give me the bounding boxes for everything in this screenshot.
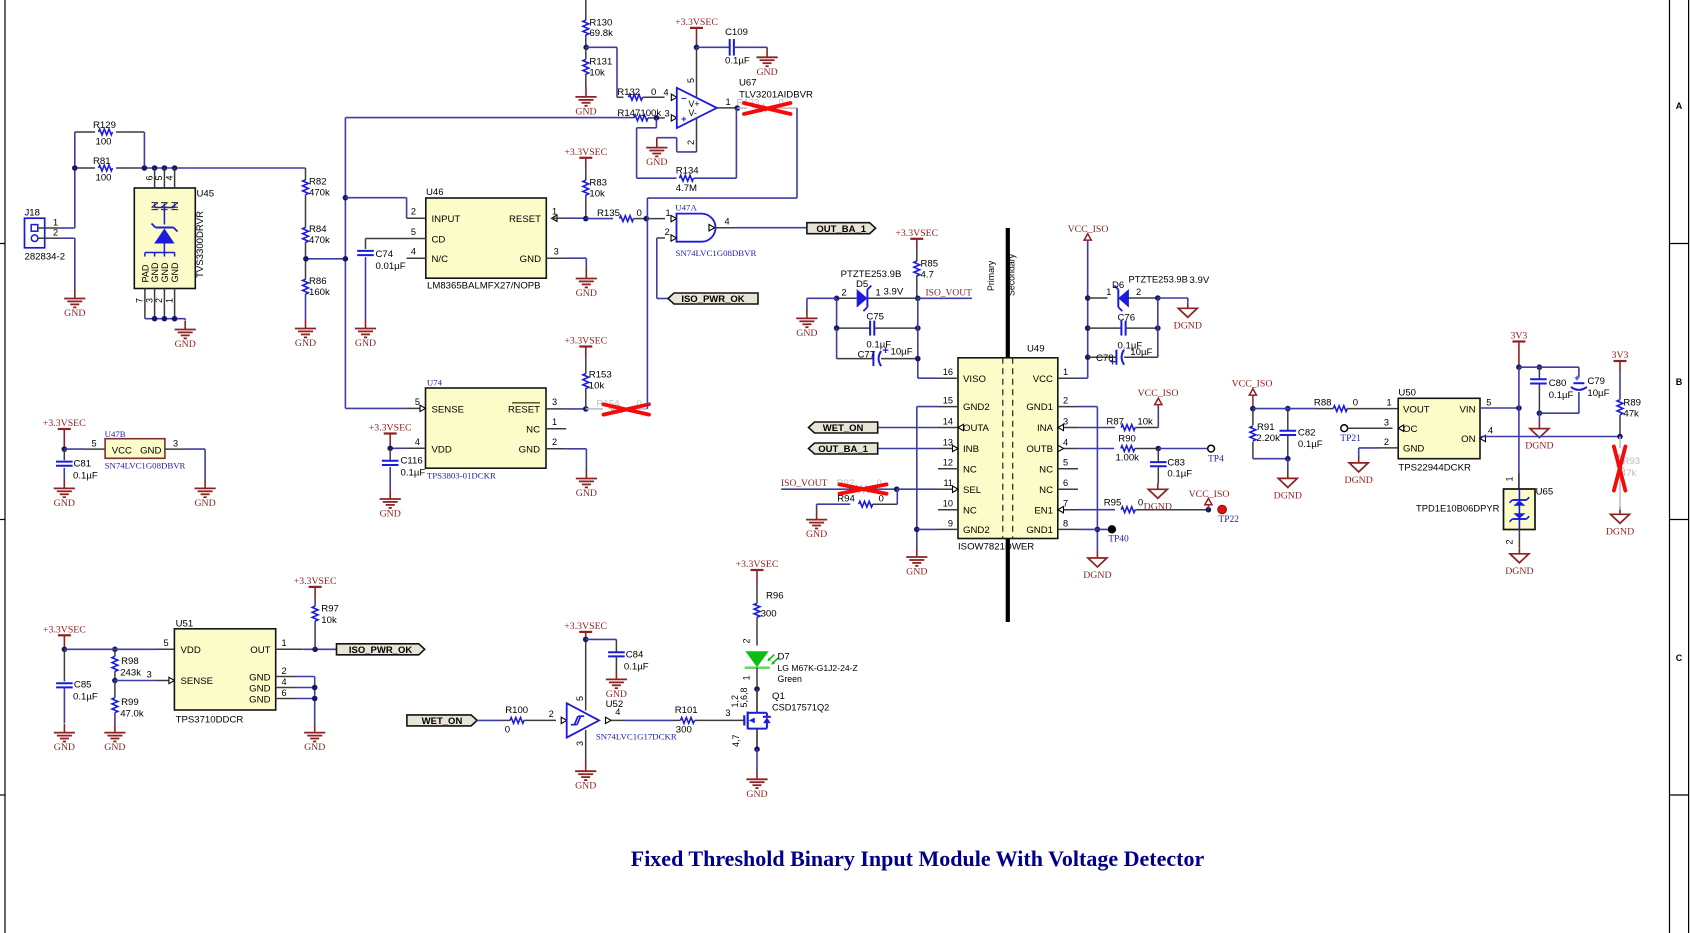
svg-text:CSD17571Q2: CSD17571Q2 [772,702,829,712]
svg-text:6: 6 [282,688,287,698]
capacitor C80 0.1uF [1530,367,1573,413]
svg-text:U46: U46 [426,187,444,198]
svg-text:NC: NC [1039,464,1053,475]
svg-text:RESET: RESET [509,214,541,225]
svg-text:U74: U74 [427,378,443,388]
svg-text:13: 13 [943,438,953,448]
svg-text:GND: GND [170,262,180,283]
wire TP21 to OC pin [1348,427,1393,429]
digital ground DGND at C80 [1525,413,1553,451]
svg-text:R83: R83 [589,178,607,189]
svg-text:TP4: TP4 [1208,454,1224,464]
wire sense tap to U46 INPUT [345,198,425,219]
power flag VCC_ISO at R91 [1232,379,1273,409]
junction dots C75 [834,325,921,331]
resistor R87 10k pullup INA [1078,416,1158,430]
svg-text:Q1: Q1 [772,691,785,702]
net label ISO_PWR_OK output tag [337,644,425,656]
svg-text:0: 0 [1138,498,1143,509]
resistor R132 0 [617,87,677,101]
svg-text:0: 0 [879,494,884,505]
svg-text:PTZTE253.9B: PTZTE253.9B [841,269,902,280]
zener diode D5 PTZTE253.9B 3.9V [837,269,918,311]
test point TP22 [1218,505,1240,525]
svg-text:1: 1 [164,298,174,303]
resistor R83 10k [583,169,607,219]
svg-text:4.7M: 4.7M [676,183,697,194]
svg-text:0.1µF: 0.1µF [1167,469,1192,480]
power +3.3VSEC at R153 [564,336,607,359]
svg-text:0.1µF: 0.1µF [1298,439,1323,450]
svg-text:2: 2 [1136,287,1141,297]
svg-text:0: 0 [1353,398,1358,409]
capacitor C75 0.1uF [837,298,918,350]
svg-text:4: 4 [415,437,420,447]
svg-text:1: 1 [282,638,287,648]
ground GND at U45 [175,321,196,351]
junction dot U52 power [583,637,589,643]
svg-text:R88: R88 [1314,398,1332,409]
TVS diode U45 TVS3300DRVR [134,168,214,319]
svg-text:2: 2 [549,709,554,719]
ground GND at U74 [576,470,597,500]
svg-text:0: 0 [651,87,656,98]
svg-text:100: 100 [96,173,112,184]
power flag VCC_ISO at R87 [1138,388,1179,404]
buffer U52 SN74LVC1G17DCKR [567,699,677,742]
svg-text:0.01µF: 0.01µF [376,261,406,272]
digital ground DGND at C83 [1144,483,1172,512]
svg-text:1: 1 [53,217,58,227]
svg-text:4: 4 [411,247,416,257]
svg-text:47k: 47k [1623,408,1639,419]
svg-text:NC: NC [526,425,540,436]
svg-text:1: 1 [552,417,557,427]
svg-text:R153: R153 [589,370,612,381]
resistor R90 1.00k at OUTB [1078,434,1158,464]
svg-text:8: 8 [1063,518,1068,528]
svg-text:TP22: TP22 [1218,515,1239,525]
svg-text:D5: D5 [856,279,868,290]
svg-text:R81: R81 [93,156,111,167]
pin stub U74 NC pin1 [546,428,566,430]
wire R93 to DGND [1619,508,1621,509]
pin stub U46 N/C pin 4 [407,257,426,259]
svg-text:4.7: 4.7 [921,270,934,281]
svg-text:GND: GND [140,445,161,456]
svg-text:OUT: OUT [250,645,270,656]
svg-text:U51: U51 [176,618,194,629]
ground GND at U47B pin3 [194,479,215,509]
wire to U47B VCC pin 5 [64,439,105,450]
power 3V3 at C80 [1510,331,1527,368]
svg-text:9: 9 [948,518,953,528]
power +3.3VSEC at R97 [294,576,337,598]
svg-text:3: 3 [147,669,152,679]
svg-text:0.1µF: 0.1µF [401,468,426,479]
junction dot op-amp output [735,105,741,111]
junction dot SEL net [894,486,938,492]
svg-text:SENSE: SENSE [432,404,465,415]
wire U47A output to OUT_BA_1 [735,227,807,229]
resistor R85 4.7 [914,248,938,298]
wire supply to U51 VDD [64,638,174,649]
svg-text:10k: 10k [589,67,605,78]
svg-text:2: 2 [742,638,752,643]
net label OUT_BA_1 output tag [807,223,876,235]
svg-text:+3.3VSEC: +3.3VSEC [564,621,607,632]
junction dot U47B VCC [62,446,68,452]
svg-text:282834-2: 282834-2 [25,252,66,263]
svg-text:1: 1 [1106,287,1111,297]
svg-text:R98: R98 [121,656,139,667]
svg-text:0.1µF: 0.1µF [624,661,649,672]
junction dot R98/R99/SENSE [112,678,118,684]
svg-text:RESET: RESET [508,404,540,415]
wire U51 GND pins chain [276,677,318,724]
svg-text:GND: GND [295,338,316,349]
svg-text:4: 4 [615,707,620,717]
capacitor C116 0.1uF [382,448,425,490]
svg-text:C82: C82 [1298,428,1316,439]
svg-text:3.9V: 3.9V [1190,275,1210,286]
svg-text:+: + [681,114,687,125]
power 3V3 at R89 [1612,350,1629,372]
svg-text:OUTB: OUTB [1026,444,1053,455]
svg-text:10µF: 10µF [1587,388,1609,399]
svg-text:VDD: VDD [432,444,452,455]
svg-text:TPD1E10B06DPYR: TPD1E10B06DPYR [1416,503,1500,514]
svg-text:0: 0 [637,208,642,219]
resistor R129 100 [75,120,145,148]
power flag VCC_ISO above D6 [1068,224,1109,298]
svg-text:5: 5 [1486,397,1491,407]
wire sense rail vertical [343,118,349,409]
svg-text:GND: GND [806,529,827,540]
svg-text:DGND: DGND [1144,501,1172,512]
svg-text:GND: GND [756,67,777,78]
svg-text:+3.3VSEC: +3.3VSEC [895,228,938,239]
resistor R130 69.8k [583,0,613,47]
svg-text:4: 4 [1063,438,1068,448]
svg-text:160k: 160k [309,287,330,298]
resistor R100 0 [502,705,567,735]
wire U51 OUT to R97 junction and tag [276,648,337,650]
svg-text:R135: R135 [597,208,620,219]
svg-text:6: 6 [144,175,154,180]
svg-text:+3.3VSEC: +3.3VSEC [564,336,607,347]
svg-text:5: 5 [163,638,168,648]
svg-text:CD: CD [432,234,446,245]
svg-text:C78: C78 [1096,353,1114,364]
svg-text:10k: 10k [1137,416,1153,427]
wire R91/C82 bottom junction [1253,456,1291,473]
svg-text:U49: U49 [1027,343,1045,354]
U52 output pin 4 [606,707,674,724]
label Primary [986,260,996,291]
ground GND at C109 [756,47,777,78]
svg-text:4: 4 [282,677,287,687]
svg-text:3: 3 [665,108,670,118]
ground GND at D5 [796,308,817,339]
power +3.3VSEC at R85 [895,228,938,248]
svg-text:GND: GND [906,567,927,578]
digital ground DGND at U65 [1505,549,1533,577]
resistor R96 300 [754,583,784,646]
resistor R131 10k [583,47,612,87]
net label OUT_BA_1 tag at INB [809,443,939,455]
wire C76 right rail [1157,298,1159,357]
svg-text:+3.3VSEC: +3.3VSEC [369,423,412,434]
svg-text:47.0k: 47.0k [120,709,144,720]
svg-text:GND: GND [54,498,75,509]
resistor R95 0 at EN1 [1078,498,1208,513]
svg-text:DGND: DGND [1345,475,1373,486]
resistor R91 2.20k [1250,409,1280,459]
svg-text:ISO_VOUT: ISO_VOUT [781,479,828,489]
svg-text:LM8365BALMFX27/NOPB: LM8365BALMFX27/NOPB [427,280,541,291]
svg-text:C79: C79 [1587,376,1605,387]
svg-text:2: 2 [1505,539,1515,544]
capacitor C78 10uF polarized [1088,347,1158,369]
svg-text:12: 12 [943,458,953,468]
svg-text:0.1µF: 0.1µF [73,691,98,702]
svg-text:GND: GND [194,498,215,509]
resistor R88 0 [1314,398,1398,412]
svg-text:R94: R94 [837,494,855,505]
digital ground DGND at GND1 rail [1083,552,1111,581]
ground GND at C81 [54,479,75,509]
svg-text:R130: R130 [589,17,612,28]
svg-text:GND2: GND2 [963,402,990,413]
svg-text:Fixed Threshold Binary Input M: Fixed Threshold Binary Input Module With… [631,846,1205,871]
svg-text:GND: GND [646,157,667,168]
svg-text:+3.3VSEC: +3.3VSEC [294,576,337,587]
ground GND at R94 [806,510,827,540]
svg-text:69.8k: 69.8k [589,28,613,39]
svg-text:R85: R85 [921,259,939,270]
svg-text:2: 2 [282,666,287,676]
svg-text:GND: GND [150,262,160,283]
resistor R154 0 DNP crossed out [586,399,649,415]
net label WET_ON input tag [407,715,477,727]
voltage detector U46 LM8365BALMFX27/NOPB [411,187,559,291]
wire U47B GND pin 3 to ground [165,439,205,480]
svg-text:10k: 10k [589,381,605,392]
junction dots on input net [72,165,177,171]
junction dot R83/R135/RESET [583,216,589,222]
ground GND at R131 [575,87,596,118]
svg-text:2: 2 [665,227,670,237]
wire comparator output loop to U47A [647,108,797,198]
svg-text:3: 3 [552,397,557,407]
svg-text:TPS22944DCKR: TPS22944DCKR [1398,463,1471,474]
svg-text:5: 5 [415,397,420,407]
wire WET_ON to R100 [477,719,502,721]
wire C80/C79 loop [1519,367,1579,413]
svg-text:15: 15 [943,396,953,406]
wire GND2 rail [914,407,938,548]
pin stub U46 RESET pin 1 with arrow [552,215,586,221]
LED D7 green LG M67K-G1J2-24-Z [742,638,858,689]
svg-text:7: 7 [135,298,145,303]
pin stub U74 RESET pin3 [546,408,586,410]
resistor R84 470k [303,221,330,259]
junction dot D7/Q1 drain [754,686,760,692]
svg-text:2.20k: 2.20k [1256,433,1280,444]
svg-text:GND: GND [606,689,627,700]
digital ground DGND at D6 [1174,302,1202,331]
junction dot R90/C83/TP4 [1156,446,1162,452]
ground GND at U51 [304,724,325,754]
svg-text:R101: R101 [675,705,698,716]
wire U45 bottom pins to GND [145,316,185,322]
wire U50 GND pin 2 to DGND [1359,448,1399,457]
svg-text:VCC: VCC [112,445,132,456]
svg-text:GND: GND [64,308,85,319]
svg-text:3V3: 3V3 [1612,350,1629,361]
svg-text:16: 16 [943,367,953,377]
svg-text:INA: INA [1037,423,1054,434]
capacitor C85 0.1uF [56,649,98,723]
svg-text:U67: U67 [739,78,757,89]
svg-text:ISO_PWR_OK: ISO_PWR_OK [349,645,412,656]
ground GND at op-amp pin2 [646,138,667,169]
svg-text:R99: R99 [121,697,139,708]
digital ground DGND at R93 [1606,509,1634,537]
svg-text:WET_ON: WET_ON [422,716,463,727]
svg-text:R95: R95 [1104,498,1122,509]
feedback wire from V- junction [637,118,657,178]
resistor R135 0 [586,208,647,221]
AND gate U47A SN74LVC1G08DBVR [675,203,756,258]
svg-text:U50: U50 [1398,388,1416,399]
svg-text:GND1: GND1 [1026,402,1053,413]
svg-text:470k: 470k [309,235,330,246]
wire R87 to VCC_ISO [1157,404,1159,427]
svg-text:TPS3710DDCR: TPS3710DDCR [176,714,244,725]
svg-text:10µF: 10µF [1130,347,1152,358]
svg-text:U47B: U47B [105,429,126,439]
ground GND at C116 [380,490,401,520]
test point TP40 [1108,525,1129,544]
junction dot U74 RESET/R153 [583,406,589,412]
svg-text:VOUT: VOUT [1403,404,1430,415]
svg-text:300: 300 [676,724,692,735]
svg-text:ISO_PWR_OK: ISO_PWR_OK [681,294,744,305]
svg-text:4: 4 [164,175,174,180]
svg-text:2: 2 [842,287,847,297]
svg-text:VIN: VIN [1460,404,1476,415]
svg-text:GND: GND [160,262,170,283]
wire R84/R86 junction to sense rail [303,256,345,262]
svg-text:2: 2 [411,207,416,217]
svg-text:2: 2 [1063,396,1068,406]
resistor R133 0 DNP crossed out [737,98,798,114]
power +3.3VSEC at U47B [43,418,86,449]
svg-text:R147: R147 [617,108,640,119]
wire R130/R131 junction to R132 [586,47,617,97]
svg-text:C109: C109 [725,27,748,38]
capacitor C76 0.1uF [1088,312,1158,351]
svg-text:5,6,8: 5,6,8 [739,687,749,707]
svg-text:EN1: EN1 [1034,505,1053,516]
svg-text:4: 4 [725,217,730,227]
svg-text:GND: GND [520,254,541,265]
svg-text:5: 5 [1063,458,1068,468]
power +3.3VSEC at op-amp [675,17,718,47]
svg-text:14: 14 [943,417,953,427]
svg-text:U47A: U47A [675,203,697,213]
svg-text:10k: 10k [589,189,605,200]
junction dot R147/V- feedback [654,115,660,121]
svg-text:+3.3VSEC: +3.3VSEC [675,17,718,28]
ground GND at U49 GND2 [906,548,927,578]
load switch U50 TPS22944DCKR [1384,388,1493,474]
resistor R147 100k [617,108,676,121]
resistor R134 4.7M feedback [637,166,737,194]
svg-text:3: 3 [725,708,730,718]
svg-text:R89: R89 [1623,398,1641,409]
svg-text:100: 100 [96,137,112,148]
svg-text:0: 0 [505,724,510,735]
svg-text:WET_ON: WET_ON [823,423,864,434]
supervisor U74 TPS3803-01DCKR [415,378,557,481]
wire GND1 rail to DGND [1078,407,1100,552]
resistor R101 300 [673,705,744,735]
wire sense rail to R147 [345,117,631,119]
wire U52 pin 5 power [575,639,586,710]
svg-text:+3.3VSEC: +3.3VSEC [736,559,779,570]
svg-text:VISO: VISO [963,374,986,385]
svg-text:N/C: N/C [432,254,449,265]
junction dot D6 cathode-side [1155,295,1161,301]
junction dot R89/ON/R93 [1617,434,1623,440]
svg-text:VCC: VCC [1033,374,1053,385]
ground GND at C84 [606,670,627,700]
svg-text:ISOW7821DWER: ISOW7821DWER [958,541,1034,552]
svg-text:GND: GND [1403,444,1424,455]
capacitor C83 0.1uF [1150,449,1192,484]
svg-text:5: 5 [91,439,96,449]
wire VDD junction to U74 [387,446,425,452]
svg-text:Green: Green [778,674,803,684]
transistor Q1 CSD17571Q2 [730,687,829,749]
power +3.3VSEC at U74 VDD [369,423,412,448]
capacitor C82 0.1uF [1280,409,1323,459]
svg-text:DGND: DGND [1174,320,1202,331]
svg-text:GND: GND [249,683,270,694]
junction dot C76 right [1155,325,1161,331]
svg-text:0.1µF: 0.1µF [725,56,750,67]
svg-text:3: 3 [554,247,559,257]
svg-text:4: 4 [1488,426,1493,436]
junction dot Q1 source [754,746,760,752]
label Secondary [1007,253,1017,296]
wire VIN to 3V3 rail [1480,407,1519,409]
svg-text:C83: C83 [1167,458,1185,469]
wire U52 pin 3 to ground [575,730,586,762]
wire D5 anode to GND [807,298,837,309]
power +3.3VSEC at U52 [564,621,607,640]
svg-text:+: + [882,345,888,357]
svg-text:SN74LVC1G17DCKR: SN74LVC1G17DCKR [596,732,677,742]
ground GND at U52 [575,761,596,792]
wire op-amp pin 2 to ground [657,118,697,152]
power +3.3VSEC at R83 [564,147,607,169]
svg-text:GND: GND [519,444,540,455]
op-amp output pin 1 [717,97,738,108]
